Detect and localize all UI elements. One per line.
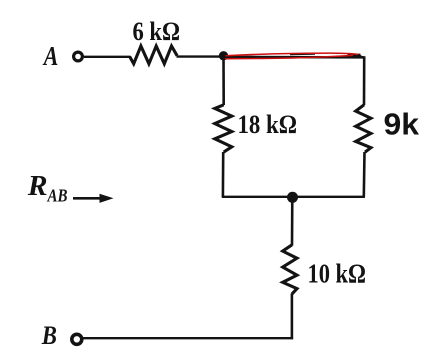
wire resistor 10k to bottom corner [291,294,294,340]
wire top rail [224,56,365,59]
terminal B [72,334,82,344]
corner notch top right [290,54,364,57]
node top junction dot [219,51,228,60]
red annotation loop upper stroke [226,53,359,56]
wire bottom rail [222,196,365,198]
wire left branch top [222,56,225,105]
resistor 9k [356,105,371,152]
svg-text:9k: 9k [384,107,420,142]
label R_AB with arrow [27,170,114,206]
svg-text:A: A [42,41,58,71]
wire bottom to terminal B [83,337,293,339]
wire resistor 6k to top node [177,55,226,57]
svg-text:10 kΩ: 10 kΩ [308,259,367,289]
wire A to resistor 6k [84,56,131,58]
resistor 18k [215,105,232,152]
wire middle node to resistor 10k [291,197,294,246]
node middle junction dot [287,192,298,203]
svg-text:R: R [27,170,48,202]
svg-text:18 kΩ: 18 kΩ [238,110,298,139]
resistor 10k [283,245,297,294]
svg-text:B: B [41,321,57,350]
wire right branch top [363,56,366,105]
svg-text:AB: AB [47,185,68,205]
terminal A [74,52,83,61]
svg-text:6 kΩ: 6 kΩ [133,17,181,46]
resistor 6k [130,46,177,64]
red annotation loop lower stroke [225,55,353,59]
wire left branch bottom [222,152,225,197]
wire right branch bottom [362,152,365,197]
